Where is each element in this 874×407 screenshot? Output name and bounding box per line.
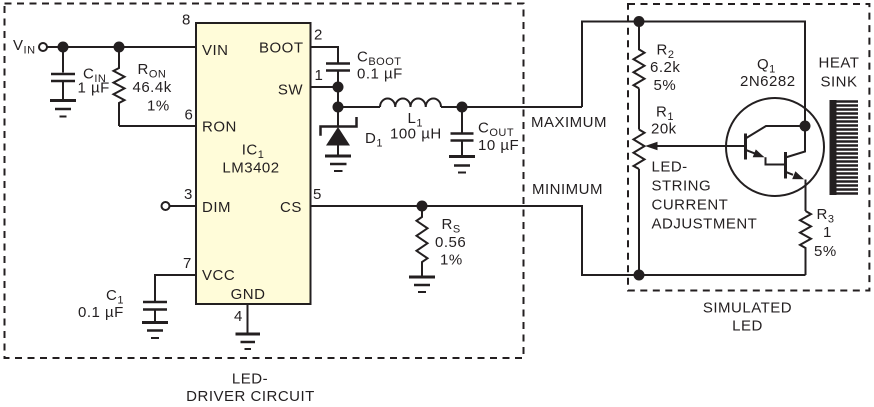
svg-text:0.1 µF: 0.1 µF [357, 66, 403, 83]
svg-text:MAXIMUM: MAXIMUM [531, 114, 607, 131]
node DIM terminal [162, 202, 170, 210]
svg-text:0.56: 0.56 [435, 234, 466, 251]
svg-text:4: 4 [234, 308, 243, 325]
ground D1 [325, 155, 351, 158]
svg-text:20k: 20k [651, 121, 677, 138]
simulated-LED dashed box [628, 4, 869, 291]
wire RON to pin 6 [119, 125, 196, 127]
wire BOOT pin 2 [311, 47, 339, 63]
wire SW node [337, 87, 339, 107]
svg-text:DIM: DIM [202, 199, 231, 216]
ground COUT [449, 155, 475, 158]
resistor R2 [634, 22, 645, 89]
wire VCC pin 7 [155, 275, 196, 301]
svg-text:100 µH: 100 µH [390, 126, 442, 143]
svg-text:SIMULATED: SIMULATED [703, 300, 792, 317]
svg-text:8: 8 [182, 12, 191, 29]
svg-text:1 µF: 1 µF [78, 80, 110, 97]
resistor R3 [800, 211, 811, 275]
ground C1 [142, 321, 168, 324]
svg-text:2: 2 [314, 27, 323, 44]
svg-text:STRING: STRING [652, 178, 712, 195]
transistor Q1 base bar T2 [784, 152, 787, 179]
svg-text:1%: 1% [440, 252, 463, 269]
junction dot SW/CBOOT [333, 82, 344, 93]
resistor RS [417, 206, 428, 277]
capacitor COUT [461, 107, 463, 133]
inductor L1 [380, 99, 441, 108]
transistor Q1 base bar T1 [744, 134, 747, 160]
transistor Q1 circle [726, 98, 824, 196]
diode D1 schottky [337, 107, 339, 127]
svg-text:6.2k: 6.2k [650, 59, 680, 76]
svg-text:5%: 5% [654, 77, 677, 94]
wire R2 to R1 [638, 88, 640, 129]
svg-text:VCC: VCC [202, 267, 235, 284]
svg-text:DRIVER CIRCUIT: DRIVER CIRCUIT [186, 388, 315, 405]
IC IC1 LM3402 body [196, 23, 311, 304]
ground GND pin [236, 333, 261, 336]
junction dot collector [800, 121, 811, 132]
junction dot SW/D1/L1 [333, 102, 344, 113]
svg-text:1: 1 [315, 67, 324, 84]
svg-text:7: 7 [183, 255, 192, 272]
node VIN terminal [39, 43, 47, 51]
svg-text:SW: SW [278, 82, 304, 99]
svg-text:LM3402: LM3402 [222, 160, 279, 177]
svg-text:0.1 µF: 0.1 µF [78, 304, 124, 321]
svg-text:5%: 5% [814, 243, 837, 260]
svg-text:10 µF: 10 µF [478, 137, 519, 154]
wire GND pin 4 [247, 304, 249, 334]
junction dot RS [417, 201, 428, 212]
wire DIM [170, 205, 197, 207]
svg-text:GND: GND [231, 286, 266, 303]
svg-text:1%: 1% [147, 98, 170, 115]
junction dot R2 top node [634, 16, 645, 27]
junction dot COUT [457, 102, 468, 113]
LED-driver circuit dashed box [5, 4, 524, 359]
junction dot minimum node [634, 270, 645, 281]
svg-text:LED-: LED- [232, 371, 268, 388]
svg-text:BOOT: BOOT [259, 40, 304, 57]
svg-text:CS: CS [280, 199, 302, 216]
svg-text:46.4k: 46.4k [133, 79, 172, 96]
svg-text:MINIMUM: MINIMUM [532, 181, 603, 198]
svg-text:6: 6 [185, 107, 194, 124]
junction dot RON node [114, 42, 125, 53]
svg-text:5: 5 [313, 186, 322, 203]
svg-text:2N6282: 2N6282 [740, 73, 796, 90]
wire R1 bottom to minimum node [638, 169, 640, 275]
svg-text:VIN: VIN [202, 42, 229, 59]
ground RS [409, 276, 435, 279]
heat sink [830, 100, 837, 195]
wire SW node to L1 [338, 106, 380, 108]
wire R1 wiper arrow [656, 145, 746, 147]
wire CS pin 5 / MINIMUM net [311, 206, 640, 275]
transistor Q1 emitter T2 with arrow [786, 172, 794, 175]
wire L1 to COUT node and right [441, 106, 582, 108]
capacitor C1 [143, 302, 167, 310]
svg-text:HEAT: HEAT [819, 55, 860, 72]
ground CIN [50, 99, 76, 102]
svg-text:SINK: SINK [820, 74, 857, 91]
svg-text:1: 1 [823, 224, 832, 241]
svg-text:3: 3 [184, 186, 193, 203]
svg-text:CURRENT: CURRENT [652, 197, 729, 214]
transistor Q1 emitter T1 with arrow [746, 150, 757, 154]
potentiometer R1 [634, 130, 645, 170]
junction dot CIN node [58, 42, 69, 53]
wire R3 to minimum node [639, 274, 806, 276]
wire VIN to pin 8 [47, 46, 196, 48]
svg-text:ADJUSTMENT: ADJUSTMENT [652, 216, 758, 233]
wire Q1 emitter to R3 [805, 180, 807, 212]
transistor Q1 collector T1 [746, 126, 806, 139]
svg-text:LED: LED [732, 318, 763, 335]
wire MAXIMUM net [582, 22, 805, 127]
resistor RON [114, 47, 125, 126]
capacitor CIN [62, 47, 64, 73]
transistor Q1 collector T2 [786, 126, 806, 158]
capacitor CBOOT [326, 64, 350, 71]
svg-text:RON: RON [202, 119, 237, 136]
svg-text:LED-: LED- [652, 159, 688, 176]
wire SW pin 1 [311, 86, 339, 88]
